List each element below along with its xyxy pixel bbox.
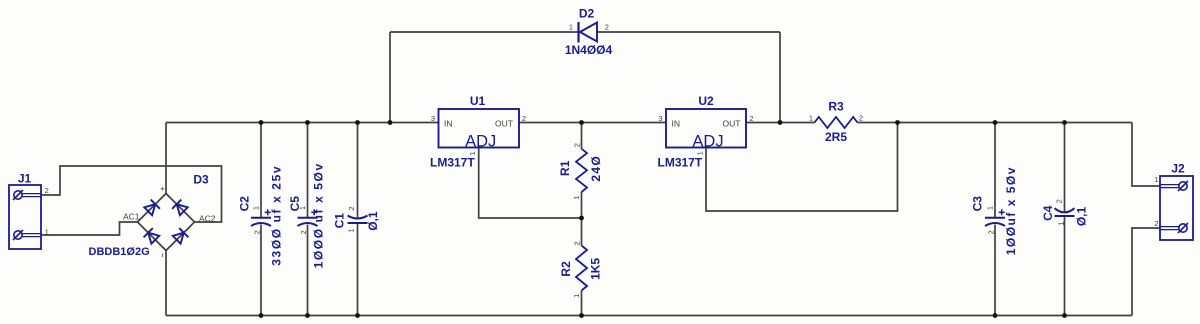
junction node C4 bottom: [1062, 313, 1067, 318]
junction node C1 top: [355, 120, 360, 125]
bridge diode upper-left: [144, 200, 160, 216]
junction node C2 bottom: [259, 313, 264, 318]
capacitor C3: [985, 209, 1005, 226]
svg-text:DBDB1Ø2G: DBDB1Ø2G: [89, 246, 150, 258]
svg-text:2: 2: [1055, 199, 1064, 203]
svg-text:1N4ØØ4: 1N4ØØ4: [565, 43, 613, 57]
wire C2 top stub: [260, 123, 262, 218]
svg-text:J1: J1: [18, 172, 32, 186]
wire J1 pin2 to AC2: [41, 166, 222, 222]
svg-text:1ØØuf x 5Øv: 1ØØuf x 5Øv: [1004, 166, 1018, 255]
svg-text:1: 1: [298, 206, 307, 210]
svg-text:2: 2: [987, 230, 996, 234]
svg-text:1: 1: [1057, 221, 1066, 225]
svg-text:2R5: 2R5: [825, 130, 847, 144]
svg-text:3: 3: [658, 114, 662, 123]
junction node C4 top: [1062, 120, 1067, 125]
junction node R2 bottom: [579, 313, 584, 318]
wire R2 top lead: [581, 218, 583, 246]
wire C5 bottom stub: [307, 225, 309, 316]
svg-text:Ø,1: Ø,1: [366, 211, 380, 231]
junction node C5 top: [305, 120, 310, 125]
wire C4 bottom stub: [1064, 216, 1066, 316]
capacitor C4: [1055, 208, 1075, 216]
svg-text:1: 1: [696, 151, 705, 155]
wire to J2 pin1: [1132, 123, 1160, 187]
wire top rail segment 4 (R3 pin2 to right corner): [858, 122, 1133, 124]
svg-text:LM317T: LM317T: [430, 156, 475, 170]
wire C2 bottom stub: [260, 225, 262, 316]
svg-text:1: 1: [468, 151, 477, 155]
wire U1 ADJ to R1/R2 node: [479, 148, 582, 219]
svg-text:1: 1: [572, 195, 581, 199]
svg-text:3: 3: [431, 114, 435, 123]
svg-text:Ø,1: Ø,1: [1075, 207, 1089, 227]
bridge minus mark: [162, 254, 164, 258]
wire top rail segment 3 (U2 OUT to R3 pin1): [746, 122, 815, 124]
svg-text:D2: D2: [579, 7, 595, 21]
capacitor C1: [348, 216, 368, 224]
regulator U1: [439, 109, 520, 148]
junction node D2 right: [778, 120, 783, 125]
wire C5 top stub: [307, 123, 309, 218]
svg-text:C4: C4: [1041, 205, 1055, 221]
svg-text:AC1: AC1: [123, 212, 140, 222]
junction node D2 left: [388, 120, 393, 125]
svg-text:U2: U2: [698, 94, 714, 108]
wire C1 bottom stub: [357, 223, 359, 316]
diode D2: [579, 22, 598, 43]
svg-text:OUT: OUT: [495, 119, 513, 129]
svg-text:1K5: 1K5: [589, 258, 603, 280]
junction node U2 ADJ feedback: [895, 120, 900, 125]
svg-text:2: 2: [605, 23, 609, 32]
svg-text:C2: C2: [237, 196, 251, 212]
svg-text:2: 2: [347, 206, 356, 210]
junction node C3 bottom: [993, 313, 998, 318]
svg-text:R3: R3: [828, 100, 844, 114]
svg-text:1: 1: [1154, 175, 1158, 184]
svg-text:J2: J2: [1171, 162, 1185, 176]
svg-text:1: 1: [346, 228, 355, 232]
svg-text:24Ø: 24Ø: [589, 155, 603, 182]
svg-text:2: 2: [573, 143, 582, 147]
svg-text:ADJ: ADJ: [465, 132, 496, 150]
svg-text:R2: R2: [559, 261, 573, 277]
svg-text:33ØØ uf x 25v: 33ØØ uf x 25v: [270, 165, 284, 266]
svg-text:R1: R1: [558, 160, 572, 176]
svg-text:1: 1: [986, 206, 995, 210]
junction node C3 top: [993, 120, 998, 125]
bridge diode upper-right: [172, 200, 188, 216]
svg-text:2: 2: [299, 230, 308, 234]
regulator U2: [666, 109, 746, 148]
capacitor C2: [251, 209, 271, 226]
junction node C1 bottom: [355, 313, 360, 318]
svg-text:2: 2: [45, 186, 49, 195]
junction node C5 bottom: [305, 313, 310, 318]
wire J1 pin1 to AC1: [41, 222, 138, 235]
svg-text:C1: C1: [332, 213, 346, 229]
bridge diode lower-right: [173, 228, 189, 244]
svg-text:U1: U1: [470, 94, 486, 108]
wire bridge - stub: [165, 251, 167, 316]
wire D2 right riser: [779, 32, 781, 123]
svg-text:IN: IN: [444, 119, 453, 129]
wire C1 top stub: [357, 123, 359, 218]
svg-text:2: 2: [573, 241, 582, 245]
connector J1: [9, 185, 41, 249]
svg-text:1: 1: [572, 294, 581, 298]
svg-text:2: 2: [1154, 219, 1158, 228]
resistor R2: [576, 246, 587, 291]
wire top rail segment 1 (bridge + to U1 IN): [166, 122, 439, 124]
svg-text:AC2: AC2: [199, 213, 216, 223]
wire R2 bottom lead: [581, 291, 583, 316]
wire U2 ADJ to output node: [706, 123, 898, 212]
bridge rectifier D3 diamond: [138, 194, 195, 251]
svg-text:1: 1: [252, 206, 261, 210]
wire D2 anode side: [390, 31, 578, 33]
svg-text:D3: D3: [193, 173, 209, 187]
junction node C2 top: [259, 120, 264, 125]
svg-text:1: 1: [569, 23, 573, 32]
svg-text:2: 2: [522, 114, 526, 123]
wire C4 top stub: [1064, 123, 1066, 213]
svg-text:1: 1: [809, 114, 813, 123]
wire D2 cathode side: [598, 31, 781, 33]
svg-text:LM317T: LM317T: [658, 156, 703, 170]
connector J2: [1160, 176, 1193, 240]
bridge diode lower-left: [144, 228, 160, 244]
junction node R1/R2 ADJ: [579, 216, 584, 221]
svg-text:ADJ: ADJ: [692, 132, 723, 150]
resistor R3: [815, 117, 858, 128]
wire top rail segment 2 (U1 OUT to U2 IN): [519, 122, 666, 124]
wire bottom rail: [166, 315, 1132, 317]
svg-text:2: 2: [253, 230, 262, 234]
svg-text:2: 2: [859, 114, 863, 123]
svg-text:+: +: [160, 184, 165, 194]
svg-text:C3: C3: [971, 196, 985, 212]
wire R1 top lead: [581, 123, 583, 149]
wire C3 bottom stub: [994, 225, 996, 316]
wire D2 left riser: [389, 32, 391, 123]
wire R1 bottom lead: [581, 192, 583, 218]
wire C3 top stub: [994, 123, 996, 218]
svg-text:2: 2: [749, 114, 753, 123]
wire to J2 pin2: [1132, 228, 1160, 316]
svg-text:IN: IN: [672, 119, 681, 129]
svg-text:1: 1: [45, 228, 49, 237]
svg-text:OUT: OUT: [723, 119, 741, 129]
capacitor C5: [298, 209, 318, 226]
wire bridge + riser: [165, 123, 167, 194]
resistor R1: [576, 149, 587, 192]
junction node R1 top: [579, 120, 584, 125]
svg-text:1ØØØ uf x 5Øv: 1ØØØ uf x 5Øv: [311, 162, 325, 268]
